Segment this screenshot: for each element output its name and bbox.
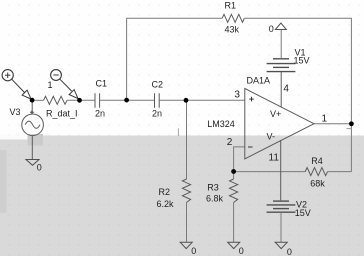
svg-text:1: 1 — [322, 113, 328, 124]
ground above V1 (flipped) — [275, 23, 286, 30]
gray lower band background — [0, 136, 364, 256]
wire stub below node E — [347, 128, 352, 130]
ground under V3 — [26, 160, 39, 166]
wire node F to R3 — [233, 172, 235, 180]
wire node F to R4 — [234, 171, 306, 173]
svg-text:0: 0 — [239, 246, 244, 256]
wire R3 to ground — [233, 203, 235, 242]
svg-text:11: 11 — [269, 152, 280, 163]
gray artifact block under V3 — [28, 134, 44, 146]
resistor R_dat_I — [44, 96, 68, 104]
svg-text:V-: V- — [267, 132, 276, 142]
svg-text:6.8k: 6.8k — [206, 194, 224, 204]
svg-text:DA1A: DA1A — [247, 76, 271, 86]
V- pin 11 stub — [280, 140, 282, 200]
wire node D down to R2 — [186, 100, 188, 179]
wire C1 to node C — [100, 99, 155, 101]
svg-text:0: 0 — [37, 163, 42, 173]
wire C2 to node D and op-amp pin 3 — [159, 99, 245, 101]
plus input mark — [249, 97, 254, 102]
wire R_dat_I to node B — [67, 99, 95, 101]
junction node D — [184, 98, 189, 103]
junction node F — [231, 169, 236, 174]
resistor R1 — [222, 14, 244, 22]
svg-text:0: 0 — [287, 247, 292, 256]
op-amp U1 DA1A (LM324) — [245, 72, 314, 201]
V+ pin 4 stub — [280, 72, 282, 108]
svg-text:R4: R4 — [311, 156, 323, 166]
ground under V2 — [275, 242, 287, 248]
svg-text:0: 0 — [269, 24, 274, 34]
wire node C up to top row — [127, 18, 223, 100]
white step at lower-left boundary — [0, 136, 36, 140]
svg-text:0: 0 — [191, 246, 196, 256]
ground under R3 — [228, 242, 240, 248]
capacitor C1 — [95, 93, 100, 107]
resistor R3 — [230, 179, 238, 203]
wire main row: node A to R_dat_I — [32, 99, 44, 101]
svg-text:2n: 2n — [95, 109, 105, 119]
svg-text:6.2k: 6.2k — [157, 199, 175, 209]
probe marker minus — [51, 70, 78, 99]
junction node A — [30, 98, 35, 103]
svg-text:1: 1 — [48, 80, 53, 90]
junction node E — [349, 121, 354, 126]
battery V1 — [267, 59, 296, 72]
svg-text:V+: V+ — [270, 109, 281, 119]
wire pin 2 down to node F — [234, 147, 245, 172]
svg-text:R3: R3 — [207, 183, 219, 193]
wire R2 to ground — [186, 203, 188, 242]
probe marker plus — [2, 70, 31, 99]
wire R1 to right vertical — [244, 18, 351, 171]
svg-text:15V: 15V — [295, 208, 311, 218]
svg-text:4: 4 — [283, 83, 289, 94]
svg-text:C2: C2 — [152, 80, 164, 90]
stray vertical segment artifact near R2 — [177, 128, 179, 136]
svg-text:15V: 15V — [294, 56, 310, 66]
battery V2 — [267, 201, 296, 212]
svg-text:R1: R1 — [225, 1, 237, 11]
wire ground0 to V1 — [280, 30, 282, 59]
svg-text:43k: 43k — [225, 25, 240, 35]
wire op-amp output to node E — [314, 123, 351, 125]
svg-text:2: 2 — [227, 137, 233, 148]
minus input mark — [248, 146, 253, 148]
svg-text:R2: R2 — [159, 187, 171, 197]
svg-text:2n: 2n — [152, 109, 162, 119]
ground under R2 — [180, 242, 192, 248]
svg-text:68k: 68k — [310, 179, 325, 189]
resistor R4 — [305, 168, 327, 176]
junction node B — [77, 98, 82, 103]
darker strip at left edge — [0, 150, 7, 213]
svg-text:3: 3 — [234, 90, 240, 101]
resistor R2 — [182, 179, 190, 203]
svg-text:LM324: LM324 — [207, 119, 235, 129]
voltage source V3 — [22, 100, 44, 159]
svg-text:V3: V3 — [10, 107, 21, 117]
capacitor C2 — [155, 93, 160, 107]
svg-text:C1: C1 — [96, 79, 108, 89]
junction node C — [124, 98, 129, 103]
svg-text:R_dat_I: R_dat_I — [46, 108, 78, 118]
wire V2 to ground — [280, 212, 282, 242]
wire R4 to right vertical — [328, 171, 352, 173]
